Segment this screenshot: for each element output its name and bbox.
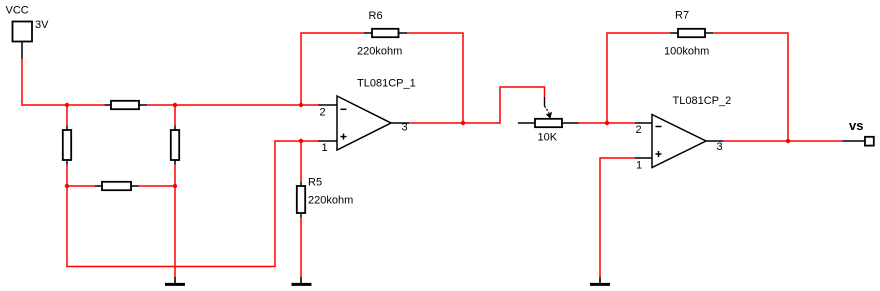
svg-text:220kohm: 220kohm xyxy=(308,195,353,207)
op-amp U2 TL081CP_2 xyxy=(635,95,731,172)
potentiometer wiper arrow xyxy=(545,97,553,119)
op-amp U1 TL081CP_1 xyxy=(319,78,416,155)
node op-amp1 pin2 junction xyxy=(299,103,303,107)
node bridge top-left junction xyxy=(65,103,69,107)
node op-amp2 pin2 junction xyxy=(605,121,609,125)
wire feedback R6 right leg xyxy=(407,33,463,123)
svg-text:VCC: VCC xyxy=(6,5,29,17)
wire bridge right vertical upper xyxy=(174,105,176,126)
node op-amp1 pin1 junction xyxy=(299,139,303,143)
svg-text:2: 2 xyxy=(320,107,326,119)
svg-text:3: 3 xyxy=(402,122,408,134)
svg-text:R6: R6 xyxy=(369,10,383,22)
wire R5 to ground xyxy=(300,218,302,278)
svg-text:3V: 3V xyxy=(35,19,49,31)
terminal vs xyxy=(843,118,874,146)
ground (bridge) xyxy=(165,277,185,284)
resistor bridge left (vertical) xyxy=(63,126,71,165)
svg-text:R7: R7 xyxy=(675,10,689,22)
wire feedback R6 left leg xyxy=(301,33,364,105)
ground (R5) xyxy=(292,277,312,284)
wire op-amp2 pin1 from ground xyxy=(600,158,635,277)
wire bridge bottom row left xyxy=(67,185,95,187)
svg-text:TL081CP_1: TL081CP_1 xyxy=(357,78,416,90)
wire bridge right vertical lower xyxy=(174,165,176,187)
resistor R6 220kohm xyxy=(357,10,407,58)
resistor R7 100kohm xyxy=(664,10,713,58)
node op-amp1 output junction xyxy=(461,121,465,125)
resistor R5 220kohm xyxy=(297,177,353,218)
resistor bridge right (vertical) xyxy=(171,126,179,165)
svg-text:3: 3 xyxy=(717,141,723,153)
svg-text:1: 1 xyxy=(322,142,328,154)
resistor bridge bottom (horizontal) xyxy=(95,182,139,190)
svg-text:TL081CP_2: TL081CP_2 xyxy=(673,95,732,107)
wire bridge bottom-right down to ground xyxy=(174,186,176,277)
wire bridge left vertical upper xyxy=(66,105,68,126)
wire VCC to bridge top row xyxy=(22,59,105,106)
svg-text:10K: 10K xyxy=(538,132,558,144)
svg-text:vs: vs xyxy=(849,118,863,133)
wire R5 branch down from pin1 junction xyxy=(300,141,302,182)
ground (op-amp2) xyxy=(590,277,610,284)
svg-text:1: 1 xyxy=(636,160,642,172)
node op-amp2 output junction xyxy=(786,139,790,143)
node bridge bottom-left junction xyxy=(65,184,69,188)
wire bridge bottom-left to op-amp pin 1 xyxy=(67,141,319,267)
wire bridge top row to op-amp pin 2 xyxy=(147,104,319,106)
wire bridge left vertical lower xyxy=(66,165,68,187)
svg-text:2: 2 xyxy=(636,124,642,136)
svg-text:220kohm: 220kohm xyxy=(357,46,402,58)
svg-text:R5: R5 xyxy=(308,177,322,189)
resistor bridge top (horizontal) xyxy=(105,101,148,109)
wire potentiometer to op-amp2 pin 2 xyxy=(579,122,636,124)
potentiometer 10K xyxy=(518,119,579,144)
node bridge bottom-right junction xyxy=(173,184,177,188)
wire feedback R7 right leg xyxy=(713,33,788,141)
wire bridge bottom row right xyxy=(139,185,176,187)
svg-text:100kohm: 100kohm xyxy=(664,46,709,58)
wire feedback R7 left leg xyxy=(607,33,670,123)
power source V1 VCC 3V xyxy=(6,5,50,60)
wire op-amp1 output to potentiometer wiper xyxy=(409,87,545,123)
wire op-amp2 output to vs terminal xyxy=(723,140,843,142)
node bridge top-right junction xyxy=(173,103,177,107)
